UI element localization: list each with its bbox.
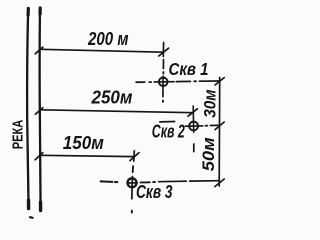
river right bank line [38, 8, 41, 211]
well Скв3 vertical centerline below [131, 177, 134, 199]
tick at Скв3 level [215, 179, 224, 187]
well Скв3 horizontal centerline [101, 180, 113, 183]
tick at well end of 150м [130, 153, 139, 161]
well Скв2 vertical centerline below [193, 144, 195, 152]
tick at Скв2 level [215, 122, 224, 130]
vertical dimension line right [218, 78, 221, 187]
svg-text:150м: 150м [63, 133, 104, 153]
well Скв1 circle [159, 78, 168, 87]
well Скв3 extension from 150м line [133, 151, 136, 161]
tick at well end of 250м [188, 109, 197, 116]
well Скв2 circle [189, 122, 198, 131]
dimension line 250м [41, 110, 194, 113]
well Скв2 horizontal centerline [160, 121, 175, 123]
well Скв3 circle [128, 178, 137, 187]
dimension line 150м [41, 155, 135, 156]
well Скв1 vertical centerline [162, 43, 164, 57]
river left bank line [27, 9, 28, 209]
tick at well end of 200 м [159, 48, 169, 56]
well Скв2 extension from 250м line [192, 106, 195, 132]
tick at river end of 150м [35, 153, 43, 160]
svg-text:200 м: 200 м [87, 29, 128, 49]
dimension line 200 м [41, 49, 164, 52]
ink speck below river [30, 216, 33, 219]
tick at Скв1 level [215, 78, 224, 85]
svg-text:30м: 30м [201, 89, 220, 118]
well Скв1 horizontal centerline [136, 81, 144, 83]
svg-text:РЕКА: РЕКА [10, 119, 26, 149]
svg-text:50м: 50м [199, 137, 218, 171]
svg-text:Скв 2: Скв 2 [152, 122, 185, 142]
tick at river end of 200 м [35, 47, 43, 54]
svg-text:Скв 1: Скв 1 [169, 59, 209, 79]
svg-text:250м: 250м [91, 87, 133, 107]
svg-text:Скв 3: Скв 3 [136, 182, 173, 202]
tick at river end of 250м [35, 108, 42, 115]
